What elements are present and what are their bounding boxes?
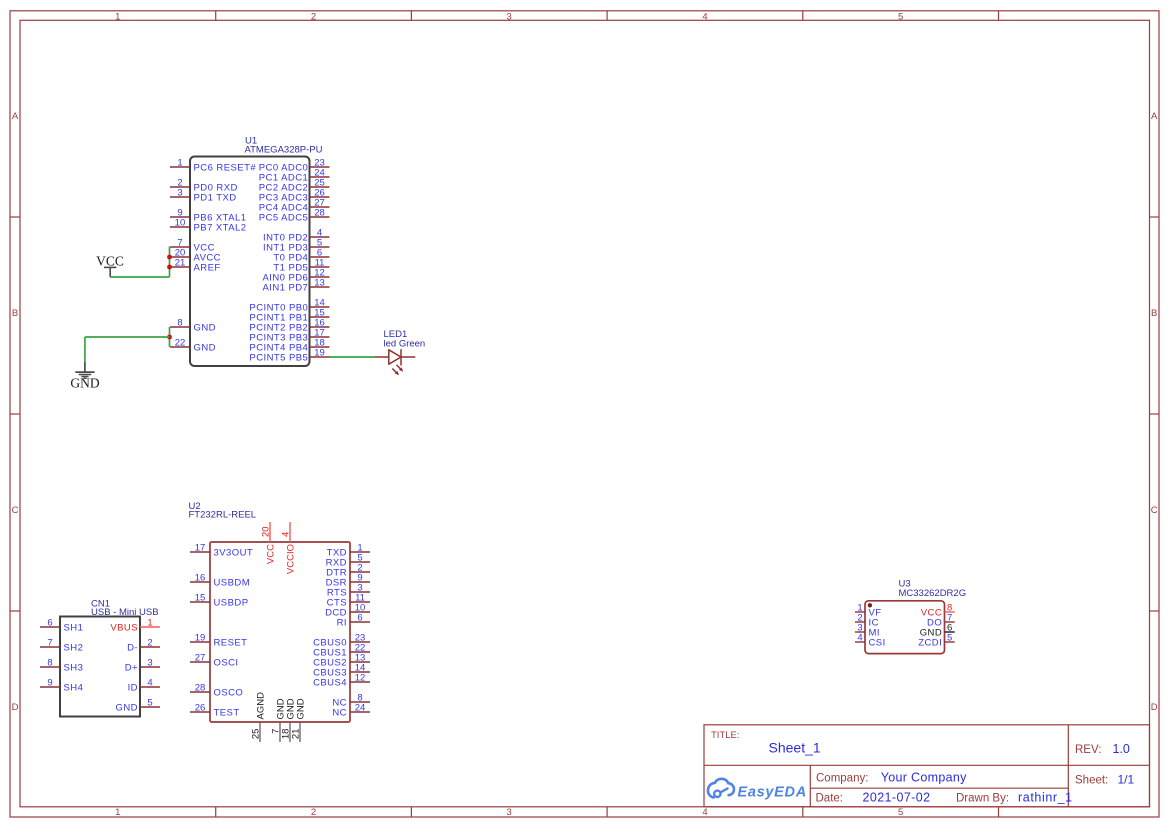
CN1 pin 4 ID (128, 678, 160, 694)
svg-text:21: 21 (291, 729, 302, 740)
svg-text:Drawn By:: Drawn By: (956, 793, 1009, 805)
U1 pin 7 VCC (170, 238, 215, 254)
U1 pin 9 PB6 XTAL1 (170, 208, 246, 224)
svg-text:15: 15 (195, 593, 206, 604)
U1 pin 16 PCINT2 PB2 (249, 318, 329, 334)
U3 pin 1 VF (855, 603, 882, 619)
U1 pin 12 AIN0 PD6 (262, 268, 329, 284)
svg-text:PC5 ADC5: PC5 ADC5 (259, 212, 309, 223)
U2 pin 1 TXD (327, 543, 370, 559)
svg-text:CBUS4: CBUS4 (313, 677, 347, 688)
svg-text:Sheet_1: Sheet_1 (769, 740, 821, 756)
U2 pin 11 CTS (327, 593, 370, 609)
svg-text:NC: NC (332, 707, 347, 718)
svg-text:4: 4 (702, 807, 707, 818)
U1 pin 10 PB7 XTAL2 (170, 218, 246, 234)
U1 pin 21 AREF (170, 258, 221, 274)
junction at U1 pin 20 (167, 255, 172, 260)
svg-text:22: 22 (175, 338, 186, 349)
svg-text:VCCIO: VCCIO (285, 544, 296, 574)
wire GND horizontal (85, 336, 170, 338)
svg-text:MC33262DR2G: MC33262DR2G (899, 588, 967, 599)
svg-text:Sheet:: Sheet: (1075, 775, 1108, 787)
IC U3 body (865, 601, 945, 654)
svg-text:5: 5 (898, 807, 903, 818)
svg-text:D-: D- (127, 642, 138, 653)
wire GND vertical U1 pins 8/22 (169, 327, 171, 347)
svg-text:3V3OUT: 3V3OUT (214, 547, 254, 558)
svg-text:2: 2 (311, 807, 316, 818)
svg-text:20: 20 (261, 526, 272, 537)
U2 pin 3 RTS (327, 583, 370, 599)
U3 pin 5 ZCDI (918, 633, 954, 649)
svg-text:3: 3 (507, 807, 512, 818)
svg-text:AREF: AREF (194, 262, 221, 273)
svg-text:28: 28 (195, 683, 206, 694)
U2 pin 28 OSCO (190, 683, 243, 699)
svg-text:B: B (12, 308, 18, 319)
CN1 pin 3 D+ (125, 658, 160, 674)
svg-text:D: D (12, 702, 19, 713)
CN1 pin 1 VBUS (110, 618, 160, 634)
svg-text:ID: ID (128, 682, 138, 693)
U1 pin 20 AVCC (170, 248, 221, 264)
U2 pin 21 GND (291, 698, 307, 742)
svg-text:USBDM: USBDM (214, 577, 251, 588)
U1 pin 2 PD0 RXD (170, 178, 238, 194)
U2 pin 16 USBDM (190, 573, 250, 589)
power symbol VCC (96, 253, 124, 277)
svg-text:rathinr_1: rathinr_1 (1018, 791, 1073, 805)
svg-text:B: B (1151, 308, 1157, 319)
U3 pin 8 VCC (921, 603, 955, 619)
svg-text:1: 1 (115, 807, 120, 818)
U1 pin 24 PC1 ADC1 (259, 168, 330, 184)
svg-text:19: 19 (314, 348, 325, 359)
svg-text:9: 9 (47, 678, 52, 689)
svg-text:5: 5 (947, 633, 952, 644)
svg-text:PC6 RESET#: PC6 RESET# (194, 162, 257, 173)
op-amp U1 body (190, 157, 310, 367)
svg-text:6: 6 (47, 618, 52, 629)
svg-text:SH4: SH4 (64, 682, 84, 693)
U1 pin 1 PC6 RESET# (170, 158, 256, 174)
svg-text:CSI: CSI (869, 637, 886, 648)
svg-text:VBUS: VBUS (110, 622, 138, 633)
svg-text:28: 28 (314, 208, 325, 219)
U2 pin 20 VCC (261, 522, 277, 564)
U2 pin 14 CBUS3 (313, 663, 370, 679)
svg-text:SH2: SH2 (64, 642, 84, 653)
U1 pin 19 PCINT5 PB5 (249, 348, 329, 364)
svg-text:PB7 XTAL2: PB7 XTAL2 (194, 222, 247, 233)
svg-text:3: 3 (147, 658, 152, 669)
svg-text:2021-07-02: 2021-07-02 (863, 791, 931, 805)
svg-text:D: D (1151, 702, 1158, 713)
U3 pin 2 IC (855, 613, 879, 629)
svg-text:27: 27 (195, 653, 206, 664)
svg-text:C: C (12, 505, 19, 516)
U2 pin 4 VCCIO (281, 522, 297, 574)
title block frame (704, 725, 1150, 807)
svg-text:3: 3 (177, 188, 182, 199)
CN1 pin 5 GND (116, 698, 160, 714)
svg-text:1: 1 (177, 158, 182, 169)
U2 pin 12 CBUS4 (313, 673, 370, 689)
svg-text:ATMEGA328P-PU: ATMEGA328P-PU (245, 144, 323, 155)
svg-text:USBDP: USBDP (214, 597, 249, 608)
EasyEDA logo cloud icon (708, 779, 734, 798)
U1 pin 17 PCINT3 PB3 (249, 328, 329, 344)
U3 pin 4 CSI (855, 633, 886, 649)
svg-text:A: A (1151, 111, 1158, 122)
U2 pin 9 DSR (326, 573, 370, 589)
svg-text:21: 21 (175, 258, 186, 269)
svg-text:Company:: Company: (816, 773, 868, 785)
wire VCC vertical to U1 pins 7/20/21 (169, 247, 171, 278)
wire VCC horizontal (110, 276, 169, 278)
U1 pin 26 PC3 ADC3 (259, 188, 330, 204)
svg-text:1/1: 1/1 (1118, 773, 1135, 787)
wire GND vertical drop (84, 337, 86, 362)
svg-text:led Green: led Green (384, 338, 426, 349)
wire U1 PB5 to LED1 (330, 356, 376, 358)
row labels (12, 111, 1158, 713)
junction GND net (167, 335, 172, 340)
svg-text:RI: RI (337, 617, 347, 628)
ground symbol GND (70, 362, 99, 391)
U2 pin 27 OSCI (190, 653, 239, 669)
U3 pin 6 GND (920, 623, 955, 639)
svg-text:PD1 TXD: PD1 TXD (194, 192, 237, 203)
svg-text:GND: GND (70, 376, 99, 391)
svg-text:10: 10 (175, 218, 186, 229)
U1 pin 22 GND (170, 338, 216, 354)
svg-text:OSCI: OSCI (214, 657, 239, 668)
svg-text:2: 2 (147, 638, 152, 649)
U3 pin 7 DO (927, 613, 955, 629)
svg-text:1.0: 1.0 (1113, 742, 1130, 756)
U2 pin 10 DCD (325, 603, 370, 619)
svg-text:REV:: REV: (1075, 744, 1101, 756)
U1 pin 27 PC4 ADC4 (259, 198, 330, 214)
U3 pin-1 polarity dot (868, 603, 872, 607)
svg-text:VCC: VCC (96, 253, 124, 268)
svg-text:26: 26 (195, 703, 206, 714)
svg-text:D+: D+ (125, 662, 138, 673)
svg-text:8: 8 (177, 318, 182, 329)
connector CN1 body (60, 617, 140, 717)
U2 pin 18 GND (281, 698, 297, 742)
svg-text:4: 4 (281, 532, 292, 537)
CN1 pin 7 SH2 (40, 638, 83, 654)
column ruler ticks (216, 11, 999, 817)
U1 pin 28 PC5 ADC5 (259, 208, 330, 224)
svg-text:2: 2 (311, 11, 316, 22)
svg-text:13: 13 (314, 278, 325, 289)
svg-text:16: 16 (195, 573, 206, 584)
svg-text:1: 1 (147, 618, 152, 629)
CN1 pin 6 SH1 (40, 618, 83, 634)
svg-text:Date:: Date: (816, 793, 844, 805)
U1 pin 4 INT0 PD2 (263, 228, 330, 244)
U2 pin 13 CBUS2 (313, 653, 370, 669)
U1 pin 23 PC0 ADC0 (259, 158, 330, 174)
svg-text:1: 1 (115, 11, 120, 22)
svg-text:SH3: SH3 (64, 662, 84, 673)
svg-text:4: 4 (147, 678, 152, 689)
svg-text:FT232RL-REEL: FT232RL-REEL (189, 510, 257, 521)
U1 pin 8 GND (170, 318, 216, 334)
CN1 pin 2 D- (127, 638, 160, 654)
CN1 pin 8 SH3 (40, 658, 83, 674)
U2 pin 6 RI (337, 613, 370, 629)
U1 pin 3 PD1 TXD (170, 188, 237, 204)
svg-text:17: 17 (195, 543, 206, 554)
U1 pin 14 PCINT0 PB0 (249, 298, 329, 314)
U1 pin 15 PCINT1 PB1 (249, 308, 329, 324)
row ruler ticks (10, 217, 1159, 611)
svg-text:7: 7 (47, 638, 52, 649)
svg-text:24: 24 (355, 703, 366, 714)
U2 pin 17 3V3OUT (190, 543, 253, 559)
U2 pin 2 DTR (326, 563, 370, 579)
svg-text:GND: GND (194, 342, 216, 353)
LED LED1 symbol (375, 349, 415, 375)
CN1 pin 9 SH4 (40, 678, 83, 694)
svg-text:6: 6 (357, 613, 362, 624)
svg-text:4: 4 (702, 11, 707, 22)
U1 pin 11 T1 PD5 (273, 258, 329, 274)
U2 pin 8 NC (332, 693, 370, 709)
svg-text:VCC: VCC (265, 544, 276, 564)
U2 pin 22 CBUS1 (313, 643, 370, 659)
svg-text:RESET: RESET (214, 637, 248, 648)
svg-text:5: 5 (147, 698, 152, 709)
svg-text:Your Company: Your Company (881, 771, 967, 785)
U2 pin 23 CBUS0 (313, 633, 370, 649)
svg-text:SH1: SH1 (64, 622, 84, 633)
svg-text:5: 5 (898, 11, 903, 22)
U2 pin 7 GND (271, 698, 287, 742)
svg-text:3: 3 (507, 11, 512, 22)
U2 pin 5 RXD (326, 553, 370, 569)
svg-text:GND: GND (194, 322, 216, 333)
svg-text:4: 4 (857, 633, 862, 644)
svg-text:EasyEDA: EasyEDA (738, 785, 807, 801)
svg-text:AIN1 PD7: AIN1 PD7 (262, 282, 308, 293)
U1 pin 18 PCINT4 PB4 (249, 338, 329, 354)
svg-text:19: 19 (195, 633, 206, 644)
svg-text:12: 12 (355, 673, 366, 684)
U3 pin 3 MI (855, 623, 880, 639)
U1 pin 6 T0 PD4 (273, 248, 329, 264)
svg-text:25: 25 (251, 729, 262, 740)
U2 pin 24 NC (332, 703, 370, 719)
column labels (115, 11, 903, 818)
svg-text:C: C (1151, 505, 1158, 516)
U1 pin 5 INT1 PD3 (263, 238, 330, 254)
U1 pin 25 PC2 ADC2 (259, 178, 330, 194)
U2 pin 26 TEST (190, 703, 240, 719)
svg-text:GND: GND (116, 702, 138, 713)
U1 pin 13 AIN1 PD7 (262, 278, 329, 294)
IC U2 body (210, 542, 350, 722)
U2 pin 15 USBDP (190, 593, 248, 609)
U2 pin 19 RESET (190, 633, 247, 649)
svg-text:ZCDI: ZCDI (918, 637, 942, 648)
svg-text:TEST: TEST (214, 707, 240, 718)
svg-text:A: A (12, 111, 19, 122)
junction at U1 pin 21 (167, 265, 172, 270)
svg-text:GND: GND (295, 698, 306, 719)
svg-text:AGND: AGND (255, 692, 266, 720)
U2 pin 25 AGND (251, 692, 267, 742)
svg-text:PCINT5 PB5: PCINT5 PB5 (249, 352, 308, 363)
svg-text:8: 8 (47, 658, 52, 669)
svg-text:OSCO: OSCO (214, 687, 244, 698)
svg-text:TITLE:: TITLE: (711, 730, 740, 741)
